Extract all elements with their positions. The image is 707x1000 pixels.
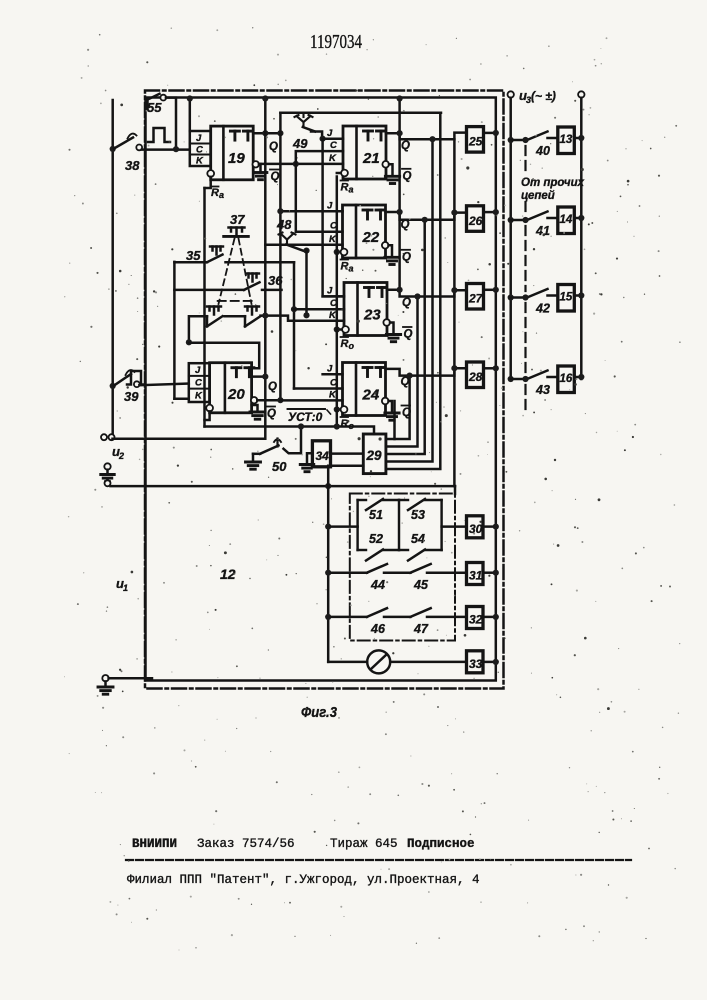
FF19 Qbar circle <box>253 161 259 167</box>
FF19 reset wire to reset bus <box>205 177 211 188</box>
label 36 <box>268 273 283 288</box>
label 24 <box>362 387 380 404</box>
box-ring left bus x454 <box>453 139 456 486</box>
junction FF19 Q at x280 <box>277 130 283 136</box>
block 12 boundary <box>146 98 496 681</box>
box29 output 4 junction <box>429 136 435 142</box>
svg-text:R: R <box>341 182 349 194</box>
switch 35 <box>174 255 294 263</box>
junction bus row1 <box>325 524 331 530</box>
FF22 Q wire to box 26 junction <box>397 209 403 215</box>
contact 36 gate <box>246 274 259 282</box>
FF21 pin K <box>329 153 337 164</box>
FF21 pin C <box>330 140 337 151</box>
vertical wire x280 (rail2 leg) <box>279 113 282 401</box>
terminal u2 lower circle <box>105 480 111 486</box>
junction u2 bus / bottom-section bus <box>325 483 331 489</box>
FF24 pin C <box>330 377 337 388</box>
box 15 right wire <box>574 292 584 298</box>
contact 52 blade <box>366 550 383 561</box>
FF19 Qbar ground <box>254 164 267 180</box>
svg-text:45: 45 <box>413 578 429 592</box>
svg-text:a: a <box>349 185 354 195</box>
label 32 <box>469 613 483 627</box>
label FF22 Qbar <box>402 250 412 263</box>
label 33 <box>469 657 483 671</box>
label u1 <box>116 576 128 593</box>
FF23 K wire from contact group <box>261 316 345 321</box>
FF20 K wire <box>174 397 188 400</box>
dash-dot program block frame <box>350 494 455 641</box>
junction FF21 J <box>320 136 326 142</box>
svg-text:Фиг.3: Фиг.3 <box>301 704 338 721</box>
label FF24 Q <box>401 376 410 388</box>
FF22 reset wire <box>334 249 340 255</box>
label 37 <box>230 212 245 227</box>
label 16 <box>560 373 573 385</box>
label FF20 Q <box>268 381 277 393</box>
FF20 input bracket <box>189 363 210 402</box>
junction C-chain on Qbar wire <box>293 161 299 167</box>
svg-text:1: 1 <box>123 583 128 593</box>
FF21 J stub <box>323 137 343 140</box>
svg-text:43: 43 <box>535 383 550 397</box>
contact 35 gate <box>210 247 223 255</box>
u3 right bus <box>580 98 583 379</box>
FF24 Qbar down wire <box>393 401 396 439</box>
svg-text:22: 22 <box>362 229 380 246</box>
svg-text:o: o <box>349 341 355 351</box>
junction u3 bus row 43 <box>508 376 514 382</box>
svg-text:39: 39 <box>124 389 139 404</box>
ground at u1 <box>98 681 113 694</box>
junction 55 branch on C wire <box>173 146 179 152</box>
box 28 right wire <box>484 365 499 371</box>
wire u2 bus bottom <box>111 485 456 488</box>
svg-text:R: R <box>341 418 349 430</box>
switch 40 <box>511 132 548 144</box>
label 50 <box>272 459 287 474</box>
label 27 <box>468 292 484 306</box>
label 46 <box>370 622 386 636</box>
svg-text:12: 12 <box>220 566 236 582</box>
svg-text:(~ ±): (~ ±) <box>531 89 556 103</box>
label u3 <box>519 88 556 105</box>
box29 output 4 <box>386 139 433 461</box>
switch 43 <box>511 371 548 383</box>
label 53 <box>411 508 425 522</box>
bottom-left bus <box>327 486 330 662</box>
label 21 <box>362 150 380 167</box>
switch 55 <box>148 94 167 101</box>
svg-text:Q: Q <box>271 171 280 183</box>
wire from switch 39 to FF20 C input <box>139 384 188 386</box>
key box 26 <box>467 206 484 232</box>
terminal u3 right <box>578 91 584 97</box>
svg-text:49: 49 <box>292 136 308 151</box>
label UST:0 <box>288 409 331 424</box>
label u2 <box>112 444 124 461</box>
imprint line 1 <box>132 837 475 851</box>
lamp symbol <box>367 650 390 673</box>
FF22 pin J <box>327 200 333 211</box>
switch 41 <box>511 212 548 224</box>
label 43 <box>535 383 550 397</box>
FF20 ground <box>250 405 265 419</box>
FF20 reset wire <box>205 411 210 420</box>
box 27 right wire <box>484 287 499 293</box>
svg-text:Тираж 645: Тираж 645 <box>330 837 398 851</box>
wire 49 to FF21 J <box>311 132 322 139</box>
FF21 Q wire to box 25 junction <box>397 130 403 136</box>
switch 39 <box>114 370 140 387</box>
junction x454 box26 <box>451 210 457 216</box>
box 34 ground <box>300 453 314 471</box>
svg-text:C: C <box>330 140 337 151</box>
terminal u1 circle <box>102 675 108 681</box>
label 51 <box>369 508 383 522</box>
svg-text:От прочих: От прочих <box>521 177 585 189</box>
imprint separator <box>126 859 631 861</box>
box 16 right wire <box>574 374 584 380</box>
svg-text:14: 14 <box>560 214 573 226</box>
wire box29 left to bottom bus <box>328 466 363 486</box>
contact 37 actuator <box>224 228 249 237</box>
svg-text:o: o <box>349 421 355 431</box>
load box 16 <box>548 366 575 393</box>
u2 source symbol <box>101 463 115 481</box>
load box 15 <box>548 285 575 312</box>
label 45 <box>413 578 429 592</box>
label 28 <box>468 370 483 384</box>
label 41 <box>535 224 550 238</box>
label FF22 Ra <box>341 260 354 274</box>
switch 50 <box>253 427 301 454</box>
label 34 <box>316 449 330 463</box>
label FF21 Qbar <box>402 169 412 183</box>
dashed linkage left <box>219 239 235 305</box>
junction x454 box27 <box>451 287 457 293</box>
svg-text:52: 52 <box>369 532 383 546</box>
output box 32 <box>467 607 484 629</box>
box 34 <box>312 441 330 467</box>
svg-text:цепей: цепей <box>521 190 555 202</box>
svg-text:44: 44 <box>370 578 385 592</box>
FF22 reset circle <box>341 249 348 256</box>
vertical x307 from 48 to FF23 K <box>303 251 309 319</box>
label 23 <box>363 307 381 324</box>
svg-text:Подписное: Подписное <box>407 837 475 851</box>
FF21-FF22 C chain <box>296 151 343 232</box>
label 49 <box>292 136 308 151</box>
junction bus row3 <box>325 614 331 620</box>
svg-text:J: J <box>327 286 333 297</box>
box29 output 3 junction <box>422 217 428 223</box>
FF22 J stub <box>323 210 343 213</box>
svg-text:K: K <box>195 391 203 402</box>
label 30 <box>469 522 483 536</box>
label FF23 Q <box>402 297 411 309</box>
svg-text:1197034: 1197034 <box>310 32 362 53</box>
wire top rail corner down x399 <box>397 95 403 133</box>
junction x454 box28 <box>451 365 457 371</box>
FF21 Qbar circle <box>382 161 389 168</box>
svg-text:J: J <box>196 133 202 144</box>
dashed linkage horizontal <box>218 300 252 302</box>
pulse waveform symbol near 39 <box>127 371 145 385</box>
row1 wires <box>331 525 466 528</box>
switch 45 <box>410 564 466 573</box>
FF22 K wire <box>265 243 342 246</box>
junction contact group output <box>262 313 268 319</box>
svg-text:J: J <box>327 364 333 375</box>
svg-text:54: 54 <box>411 532 425 546</box>
flip-flop 23 body <box>344 283 387 336</box>
label FF24 Qbar <box>402 406 412 420</box>
FF22 pin C <box>330 221 337 232</box>
svg-text:K: K <box>196 156 204 167</box>
dash-dot enclosure frame <box>145 91 504 689</box>
FF24 reset circle <box>341 406 348 413</box>
svg-text:2: 2 <box>118 451 124 461</box>
switch 36 <box>174 282 281 290</box>
label FF19 Q <box>269 141 278 153</box>
junction 50 on set-zero net <box>298 423 304 429</box>
contact pair lower-left gate <box>207 307 221 315</box>
svg-text:Q: Q <box>403 170 412 182</box>
svg-text:25: 25 <box>468 135 483 149</box>
FF23 Qbar circle <box>383 319 390 326</box>
switch 38 <box>114 134 142 151</box>
vertical x322 to FF23 J <box>323 139 344 297</box>
junction at FF20 J riser <box>186 339 192 345</box>
svg-text:42: 42 <box>535 302 550 316</box>
wire from switch 38 to FF19 C input <box>142 148 190 151</box>
svg-text:41: 41 <box>535 224 550 238</box>
svg-text:R: R <box>341 338 349 350</box>
svg-text:40: 40 <box>535 144 550 158</box>
imprint line 2 <box>127 873 480 887</box>
figure caption <box>301 704 338 721</box>
svg-text:32: 32 <box>469 613 483 627</box>
label 31 <box>469 569 483 583</box>
svg-text:37: 37 <box>230 212 245 227</box>
svg-text:34: 34 <box>316 449 330 463</box>
set-zero net wire <box>205 427 375 435</box>
switch 35 chain down to C inputs <box>293 262 296 388</box>
label from other circuits <box>521 177 585 202</box>
FF19 Qbar wire to FF21 K <box>259 163 343 166</box>
contact block 51-54 outline <box>358 500 442 550</box>
key box 28 <box>467 362 484 388</box>
FF22 pin K <box>329 234 337 245</box>
FF23 Qbar ground <box>386 323 400 342</box>
svg-text:38: 38 <box>125 158 140 173</box>
box 29 <box>363 434 386 474</box>
label 22 <box>362 229 380 246</box>
label FF21 Q <box>401 140 410 152</box>
switch 47 <box>410 608 466 617</box>
FF20 pin J <box>195 365 201 376</box>
FF19 Q output wire <box>253 132 280 135</box>
pulse waveform symbol near 55 <box>148 128 170 142</box>
FF24 Qbar circle <box>382 398 389 405</box>
wire u2 upper run <box>113 437 265 440</box>
switch 44 <box>331 564 410 573</box>
label 29 <box>366 448 383 463</box>
flip-flop 24 body <box>343 363 386 416</box>
svg-text:Q: Q <box>268 381 277 393</box>
svg-text:53: 53 <box>411 508 425 522</box>
output box 31 <box>467 563 484 585</box>
switch 46 <box>331 608 410 617</box>
box29 output 3 <box>386 220 425 454</box>
flip-flop 20 body <box>210 363 254 413</box>
label FF23 Qbar <box>403 327 413 341</box>
svg-text:20: 20 <box>227 386 245 403</box>
FF22 J wire <box>277 208 342 214</box>
label 14 <box>560 214 573 226</box>
junction u3 bus row 42 <box>508 294 514 300</box>
FF20 pin C <box>195 378 202 389</box>
FF22 Qbar circle <box>382 242 389 249</box>
svg-text:35: 35 <box>186 248 201 263</box>
label FF23 Ro <box>341 337 355 351</box>
svg-text:55: 55 <box>147 100 162 115</box>
svg-text:J: J <box>327 128 333 139</box>
FF20 Q wire <box>252 374 269 380</box>
svg-text:C: C <box>195 378 202 389</box>
FF22 Qbar ground <box>385 245 399 264</box>
box 30 right wire <box>483 524 499 530</box>
FF23 pin J <box>327 286 333 297</box>
label 35 <box>186 248 201 263</box>
box 13 right wire <box>574 135 584 141</box>
junction u3 bus row 40 <box>508 137 514 143</box>
label 42 <box>535 302 550 316</box>
FF19 J wire from top rail <box>187 95 193 131</box>
FF20 pin K <box>195 391 203 402</box>
wire switch 55 to junction on C wire <box>166 98 176 150</box>
FF23 C wire <box>294 308 344 311</box>
FF24 reset wire <box>334 406 340 412</box>
FF21 Qbar ground <box>385 164 399 183</box>
box 33 right wire <box>483 659 499 665</box>
box 25 right wire <box>484 130 499 136</box>
junction 48 contact <box>303 248 309 254</box>
u3 left bus <box>509 98 512 379</box>
svg-text:R: R <box>211 187 219 199</box>
label 19 <box>228 150 245 167</box>
terminal u3 left <box>508 91 514 97</box>
box29 output 2 junction <box>414 293 420 299</box>
svg-text:27: 27 <box>468 292 484 306</box>
FF19 reset circle <box>207 170 214 177</box>
relay contact 48 <box>279 233 304 251</box>
wire u2 bus corner down to switch block <box>454 486 457 494</box>
svg-text:51: 51 <box>369 508 383 522</box>
switch 42 <box>511 289 548 301</box>
label FF22 Q <box>401 219 410 231</box>
box 31 right wire <box>483 570 499 576</box>
FF19 pin C <box>196 145 203 156</box>
svg-text:УСТ:0: УСТ:0 <box>288 410 323 424</box>
svg-text:29: 29 <box>366 448 383 463</box>
svg-text:48: 48 <box>276 217 292 232</box>
label 15 <box>560 292 573 304</box>
label 54 <box>411 532 425 546</box>
FF23 Q wire to box 27 <box>387 290 467 297</box>
FF20 Qbar circle <box>251 397 257 403</box>
FF21 reset wire <box>337 172 340 175</box>
svg-text:J: J <box>195 365 201 376</box>
svg-text:23: 23 <box>363 307 381 324</box>
label FF24 Ro <box>341 417 355 431</box>
svg-text:36: 36 <box>268 273 283 288</box>
FF24 pin J <box>327 364 333 375</box>
flip-flop 22 body <box>343 205 386 258</box>
FF20 Qbar wire to rail2 leg <box>257 399 280 402</box>
label FF19 Qbar <box>270 170 280 184</box>
FF23 reset circle <box>342 326 349 333</box>
dashed linkage right <box>239 239 252 305</box>
box29 output 2 <box>386 297 418 447</box>
junction at switch 38 <box>110 146 116 152</box>
dashed link 42-43 <box>524 303 526 372</box>
svg-text:24: 24 <box>362 387 380 404</box>
FF24 K wire <box>280 399 342 402</box>
label 12 <box>220 566 236 582</box>
dashed link 41-42 <box>524 226 526 291</box>
label 55 <box>147 100 162 115</box>
FF19 pin K <box>196 156 204 167</box>
svg-text:33: 33 <box>469 657 483 671</box>
FF23 J stub <box>323 295 344 298</box>
label FF20 Qbar <box>267 407 277 421</box>
switch 55 left leg <box>146 99 149 110</box>
svg-text:Q: Q <box>269 141 278 153</box>
svg-text:46: 46 <box>370 622 386 636</box>
lamp row wires <box>328 661 466 664</box>
dashed link below 43 <box>524 385 526 412</box>
vertical wire x265 (rail to u2 run) <box>262 95 268 438</box>
junction C23 branch <box>291 306 297 312</box>
label 40 <box>535 144 550 158</box>
box 32 right wire <box>483 614 499 620</box>
label 39 <box>124 389 139 404</box>
svg-text:K: K <box>329 153 337 164</box>
svg-text:a: a <box>349 264 354 274</box>
key box 25 <box>467 127 484 153</box>
lower contact chain <box>189 316 261 342</box>
patent number title <box>310 32 362 53</box>
rail2 horizontal <box>280 111 441 114</box>
svg-text:19: 19 <box>228 150 245 167</box>
label 52 <box>369 532 383 546</box>
FF24 pin K <box>329 390 337 401</box>
load box 14 <box>548 207 575 234</box>
FF24 Q wire to box 28 <box>386 368 467 375</box>
FF24 C wire <box>294 387 343 390</box>
svg-text:R: R <box>341 261 349 273</box>
contact 51 blade <box>366 499 383 510</box>
label 20 <box>227 386 245 403</box>
wire box34 to box29 <box>331 452 364 455</box>
box29 output 1 <box>386 376 410 439</box>
label 48 <box>276 217 292 232</box>
junction FF20 Qbar <box>277 397 283 403</box>
svg-text:47: 47 <box>413 622 429 636</box>
